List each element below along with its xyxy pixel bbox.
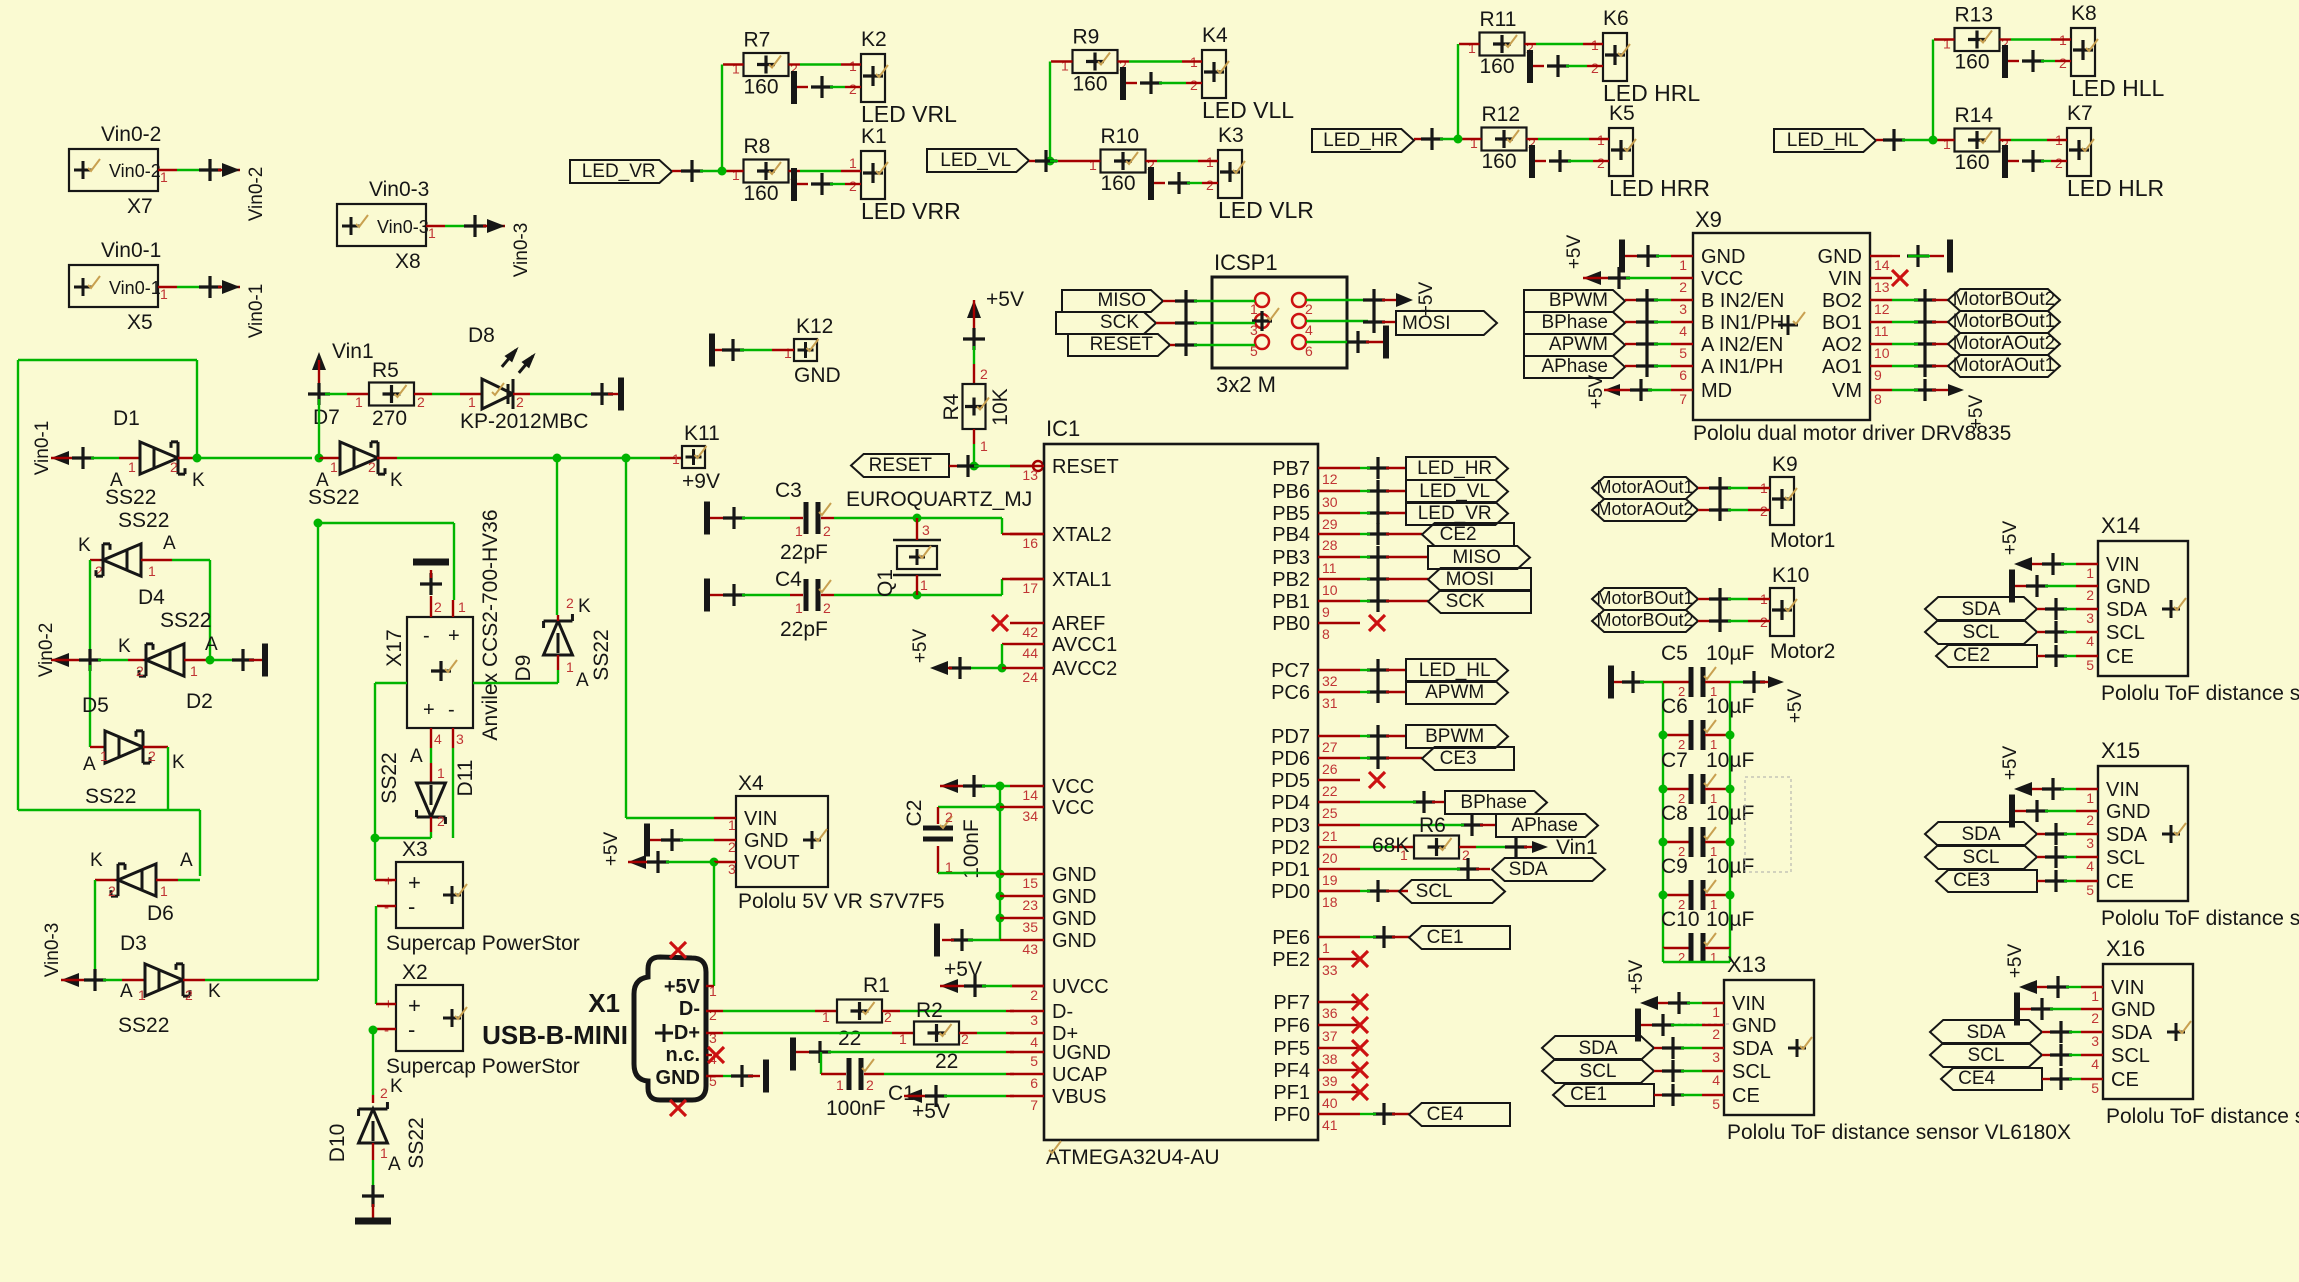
svg-text:11: 11	[1874, 323, 1889, 339]
svg-text:38: 38	[1322, 1051, 1338, 1067]
svg-text:2: 2	[185, 987, 193, 1003]
svg-text:2: 2	[2055, 155, 2063, 171]
svg-text:A: A	[180, 850, 193, 871]
svg-text:31: 31	[1322, 695, 1338, 711]
svg-text:AO1: AO1	[1822, 356, 1862, 378]
svg-text:5: 5	[1679, 345, 1687, 361]
svg-text:PF6: PF6	[1273, 1015, 1310, 1037]
svg-text:GND: GND	[2111, 999, 2155, 1021]
svg-text:C4: C4	[775, 568, 802, 591]
svg-text:2: 2	[945, 809, 953, 825]
svg-text:3: 3	[2091, 1033, 2099, 1049]
svg-text:MotorAOut1: MotorAOut1	[1953, 355, 2055, 376]
svg-text:1: 1	[330, 459, 338, 475]
svg-text:SCL: SCL	[1968, 1045, 2005, 1066]
svg-text:R7: R7	[744, 29, 771, 52]
svg-text:CE3: CE3	[1440, 748, 1477, 769]
svg-text:1: 1	[138, 987, 146, 1003]
svg-text:APWM: APWM	[1425, 682, 1484, 703]
svg-text:PD6: PD6	[1271, 748, 1310, 770]
svg-text:LED_VR: LED_VR	[1418, 503, 1492, 524]
svg-text:SCL: SCL	[1732, 1061, 1771, 1083]
svg-text:CE2: CE2	[1440, 524, 1477, 545]
svg-text:K10: K10	[1772, 564, 1809, 587]
svg-text:5: 5	[1712, 1096, 1720, 1112]
svg-text:LED_HR: LED_HR	[1323, 130, 1398, 151]
svg-text:X7: X7	[127, 195, 153, 218]
svg-text:4: 4	[1030, 1034, 1038, 1050]
svg-text:+: +	[384, 873, 393, 890]
svg-text:EUROQUARTZ_MJ: EUROQUARTZ_MJ	[846, 488, 1032, 511]
svg-text:K6: K6	[1603, 7, 1629, 30]
svg-text:PB6: PB6	[1272, 481, 1310, 503]
svg-text:22: 22	[838, 1027, 861, 1050]
svg-text:RESET: RESET	[869, 455, 933, 476]
svg-text:GND: GND	[2106, 576, 2150, 598]
svg-text:CE4: CE4	[1427, 1104, 1464, 1125]
svg-text:A: A	[120, 981, 133, 1002]
svg-text:Vin0-1: Vin0-1	[101, 239, 161, 262]
svg-text:2: 2	[170, 459, 178, 475]
svg-text:SCL: SCL	[2106, 847, 2145, 869]
svg-text:Vin1: Vin1	[332, 340, 374, 363]
svg-text:BPWM: BPWM	[1549, 290, 1608, 311]
svg-text:5: 5	[1030, 1053, 1038, 1069]
svg-text:+5V: +5V	[986, 288, 1024, 311]
svg-text:3: 3	[2086, 835, 2094, 851]
svg-text:A IN2/EN: A IN2/EN	[1701, 334, 1783, 356]
svg-text:+5V: +5V	[2005, 944, 2026, 979]
svg-text:12: 12	[1322, 471, 1338, 487]
svg-text:CE4: CE4	[1958, 1068, 1995, 1089]
svg-text:10: 10	[1322, 582, 1338, 598]
svg-text:PD3: PD3	[1271, 815, 1310, 837]
svg-text:VCC: VCC	[1052, 776, 1094, 798]
svg-text:CE: CE	[2111, 1069, 2139, 1091]
svg-text:PC7: PC7	[1271, 660, 1310, 682]
svg-text:Pololu ToF distance s: Pololu ToF distance s	[2106, 1105, 2299, 1128]
svg-text:16: 16	[1022, 535, 1038, 551]
svg-text:LED VRR: LED VRR	[861, 198, 961, 224]
svg-text:K3: K3	[1218, 124, 1244, 147]
svg-text:30: 30	[1322, 494, 1338, 510]
svg-text:BO2: BO2	[1822, 290, 1862, 312]
svg-text:Vin0-1: Vin0-1	[32, 421, 53, 476]
svg-text:APhase: APhase	[1511, 815, 1578, 836]
svg-text:10µF: 10µF	[1706, 802, 1754, 825]
svg-text:K: K	[118, 636, 131, 657]
svg-text:Supercap PowerStor: Supercap PowerStor	[386, 1055, 580, 1078]
svg-text:1: 1	[2086, 565, 2094, 581]
svg-text:2: 2	[1190, 77, 1198, 93]
svg-text:SS22: SS22	[118, 509, 169, 532]
svg-text:10µF: 10µF	[1706, 855, 1754, 878]
svg-text:4: 4	[2086, 633, 2094, 649]
svg-text:4: 4	[1305, 322, 1313, 338]
svg-text:+5V: +5V	[2000, 521, 2021, 556]
svg-text:PF1: PF1	[1273, 1082, 1310, 1104]
svg-text:40: 40	[1322, 1095, 1338, 1111]
svg-text:15: 15	[1022, 875, 1038, 891]
svg-text:MotorBOut2: MotorBOut2	[1596, 610, 1693, 630]
svg-text:X16: X16	[2106, 936, 2145, 961]
svg-text:CE3: CE3	[1953, 870, 1990, 891]
svg-text:SS22: SS22	[590, 629, 613, 680]
svg-text:5: 5	[2086, 882, 2094, 898]
svg-text:1: 1	[1061, 58, 1069, 74]
svg-text:4: 4	[2091, 1056, 2099, 1072]
svg-text:GND: GND	[744, 830, 788, 852]
svg-text:2: 2	[380, 1085, 388, 1101]
svg-text:Pololu ToF distance sensor VL6: Pololu ToF distance sensor VL6180X	[1727, 1121, 2071, 1144]
svg-text:CE1: CE1	[1570, 1084, 1607, 1105]
svg-text:D8: D8	[468, 324, 495, 347]
svg-text:43: 43	[1022, 941, 1038, 957]
svg-text:2: 2	[566, 595, 574, 611]
svg-text:2: 2	[823, 600, 831, 616]
svg-text:SDA: SDA	[1966, 1022, 2005, 1043]
svg-text:2: 2	[866, 1077, 874, 1093]
svg-text:GND: GND	[794, 364, 841, 387]
svg-text:3: 3	[1679, 301, 1687, 317]
svg-text:+5V: +5V	[601, 832, 622, 867]
svg-text:+5V: +5V	[912, 1100, 950, 1123]
svg-text:42: 42	[1022, 624, 1038, 640]
svg-text:PF5: PF5	[1273, 1038, 1310, 1060]
svg-text:A: A	[205, 634, 218, 655]
svg-text:C5: C5	[1661, 642, 1688, 665]
svg-text:LED_VL: LED_VL	[1419, 481, 1490, 502]
svg-text:8: 8	[1322, 626, 1330, 642]
svg-text:+5V: +5V	[1564, 235, 1585, 270]
svg-text:SS22: SS22	[405, 1117, 428, 1168]
svg-text:C10: C10	[1661, 908, 1700, 931]
svg-text:SDA: SDA	[2106, 599, 2148, 621]
svg-text:SDA: SDA	[2111, 1022, 2153, 1044]
svg-text:2: 2	[2059, 55, 2067, 71]
svg-text:VIN: VIN	[1732, 993, 1765, 1015]
svg-text:1: 1	[1322, 940, 1330, 956]
svg-text:PD4: PD4	[1271, 792, 1310, 814]
svg-text:SDA: SDA	[1732, 1038, 1774, 1060]
svg-text:1: 1	[148, 563, 156, 579]
svg-text:X2: X2	[402, 961, 428, 984]
svg-text:23: 23	[1022, 897, 1038, 913]
svg-text:MotorBOut1: MotorBOut1	[1953, 311, 2055, 332]
svg-text:KP-2012MBC: KP-2012MBC	[460, 410, 588, 433]
svg-text:37: 37	[1322, 1028, 1338, 1044]
svg-text:SDA: SDA	[1509, 859, 1548, 880]
svg-text:PC6: PC6	[1271, 682, 1310, 704]
svg-text:33: 33	[1322, 962, 1338, 978]
svg-text:USB-B-MINI: USB-B-MINI	[482, 1020, 628, 1050]
svg-text:3: 3	[728, 861, 736, 877]
svg-text:34: 34	[1022, 808, 1038, 824]
svg-text:Vin0-1: Vin0-1	[109, 278, 161, 298]
svg-text:2: 2	[1712, 1026, 1720, 1042]
svg-text:2: 2	[2086, 812, 2094, 828]
svg-text:6: 6	[1679, 367, 1687, 383]
svg-text:MOSI: MOSI	[1446, 569, 1495, 590]
svg-text:GND: GND	[1052, 886, 1096, 908]
svg-text:GND: GND	[1052, 908, 1096, 930]
svg-text:1: 1	[190, 663, 198, 679]
svg-text:+5V: +5V	[1586, 375, 1607, 410]
svg-text:X4: X4	[738, 772, 764, 795]
svg-text:CE2: CE2	[1953, 645, 1990, 666]
svg-text:K: K	[172, 752, 185, 773]
svg-text:R13: R13	[1955, 4, 1994, 27]
svg-text:CE: CE	[2106, 646, 2134, 668]
svg-text:VM: VM	[1832, 380, 1862, 402]
svg-text:3: 3	[2086, 610, 2094, 626]
svg-text:VIN: VIN	[2106, 554, 2139, 576]
svg-text:17: 17	[1022, 580, 1038, 596]
svg-text:Pololu 5V VR S7V7F5: Pololu 5V VR S7V7F5	[738, 890, 945, 913]
svg-text:+9V: +9V	[682, 470, 720, 493]
svg-text:ATMEGA32U4-AU: ATMEGA32U4-AU	[1046, 1146, 1220, 1169]
svg-text:GND: GND	[656, 1067, 700, 1089]
svg-text:LED VRL: LED VRL	[861, 101, 957, 127]
svg-text:UVCC: UVCC	[1052, 976, 1109, 998]
svg-text:AO2: AO2	[1822, 334, 1862, 356]
svg-text:29: 29	[1322, 516, 1338, 532]
svg-text:R2: R2	[916, 999, 943, 1022]
svg-text:2: 2	[849, 178, 857, 194]
svg-text:160: 160	[1955, 151, 1990, 174]
svg-text:41: 41	[1322, 1117, 1338, 1133]
svg-text:R4: R4	[940, 393, 963, 420]
svg-text:X9: X9	[1695, 207, 1722, 232]
svg-text:GND: GND	[2106, 801, 2150, 823]
svg-text:5: 5	[2086, 657, 2094, 673]
svg-text:28: 28	[1322, 537, 1338, 553]
svg-text:D-: D-	[1052, 1001, 1073, 1023]
svg-text:Vin0-1: Vin0-1	[246, 284, 267, 339]
svg-text:PB4: PB4	[1272, 524, 1310, 546]
svg-text:AVCC2: AVCC2	[1052, 658, 1117, 680]
svg-text:SCL: SCL	[1416, 881, 1453, 902]
svg-text:1: 1	[468, 394, 476, 410]
svg-text:MotorAOut2: MotorAOut2	[1953, 333, 2055, 354]
svg-text:MOSI: MOSI	[1402, 313, 1451, 334]
svg-text:1: 1	[160, 883, 168, 899]
svg-text:1: 1	[795, 523, 803, 539]
svg-text:D9: D9	[512, 655, 535, 682]
svg-text:1: 1	[1943, 136, 1951, 152]
svg-text:K: K	[390, 470, 403, 491]
svg-text:SS22: SS22	[118, 1014, 169, 1037]
svg-text:D+: D+	[674, 1022, 700, 1044]
svg-text:D5: D5	[82, 694, 109, 717]
svg-text:Vin1: Vin1	[1556, 836, 1598, 859]
svg-text:10K: 10K	[989, 388, 1012, 425]
svg-text:D4: D4	[138, 586, 165, 609]
svg-text:D11: D11	[454, 760, 477, 797]
svg-text:1: 1	[355, 394, 363, 410]
svg-text:21: 21	[1322, 828, 1338, 844]
svg-text:RESET: RESET	[1090, 334, 1154, 355]
svg-text:Q1: Q1	[874, 569, 897, 597]
svg-text:AREF: AREF	[1052, 613, 1105, 635]
svg-text:+: +	[448, 625, 460, 647]
svg-text:BPhase: BPhase	[1460, 792, 1527, 813]
svg-text:LED VLL: LED VLL	[1202, 97, 1294, 123]
svg-text:160: 160	[1955, 51, 1990, 74]
svg-text:LED_HL: LED_HL	[1419, 660, 1491, 681]
svg-text:1: 1	[1679, 257, 1687, 273]
svg-text:10µF: 10µF	[1706, 642, 1754, 665]
svg-text:-: -	[408, 1017, 415, 1042]
svg-text:22pF: 22pF	[780, 541, 828, 564]
svg-text:SDA: SDA	[2106, 824, 2148, 846]
svg-text:-: -	[384, 899, 389, 916]
svg-text:+5V: +5V	[910, 629, 931, 664]
svg-text:D2: D2	[186, 690, 213, 713]
svg-text:160: 160	[1480, 55, 1515, 78]
svg-text:BO1: BO1	[1822, 312, 1862, 334]
svg-text:PF7: PF7	[1273, 992, 1310, 1014]
svg-text:SCL: SCL	[1580, 1061, 1617, 1082]
svg-text:XTAL2: XTAL2	[1052, 524, 1112, 546]
svg-text:R1: R1	[863, 974, 890, 997]
svg-text:LED_VL: LED_VL	[940, 150, 1011, 171]
svg-text:SCL: SCL	[2106, 622, 2145, 644]
svg-text:1: 1	[2091, 988, 2099, 1004]
svg-text:PD7: PD7	[1271, 726, 1310, 748]
svg-text:LED HLL: LED HLL	[2071, 75, 2165, 101]
svg-text:BPWM: BPWM	[1425, 726, 1484, 747]
svg-text:LED HRR: LED HRR	[1609, 175, 1710, 201]
svg-text:C2: C2	[903, 800, 926, 827]
svg-text:C3: C3	[775, 479, 802, 502]
svg-text:1: 1	[458, 599, 466, 615]
svg-text:MD: MD	[1701, 380, 1732, 402]
svg-text:35: 35	[1022, 919, 1038, 935]
svg-text:1: 1	[728, 817, 736, 833]
svg-text:PF4: PF4	[1273, 1060, 1310, 1082]
svg-text:22pF: 22pF	[780, 618, 828, 641]
svg-text:1: 1	[1470, 135, 1478, 151]
svg-text:n.c.: n.c.	[666, 1044, 700, 1066]
svg-text:1: 1	[836, 1077, 844, 1093]
svg-text:Motor1: Motor1	[1770, 529, 1835, 552]
svg-text:10: 10	[1874, 345, 1890, 361]
svg-text:+: +	[408, 993, 421, 1018]
svg-text:D7: D7	[313, 406, 340, 429]
svg-text:B IN2/EN: B IN2/EN	[1701, 290, 1784, 312]
svg-text:+5V: +5V	[664, 976, 701, 998]
svg-text:22: 22	[935, 1050, 958, 1073]
svg-text:2: 2	[1305, 301, 1313, 317]
svg-text:26: 26	[1322, 761, 1338, 777]
svg-text:Vin0-3: Vin0-3	[369, 178, 429, 201]
svg-text:SDA: SDA	[1961, 824, 2000, 845]
svg-text:14: 14	[1022, 787, 1038, 803]
svg-text:XTAL1: XTAL1	[1052, 569, 1112, 591]
svg-text:ICSP1: ICSP1	[1214, 250, 1278, 275]
svg-text:1: 1	[822, 1009, 830, 1025]
svg-text:1: 1	[920, 577, 928, 593]
svg-text:R9: R9	[1073, 26, 1100, 49]
svg-text:1: 1	[1250, 301, 1258, 317]
svg-text:2: 2	[434, 599, 442, 615]
svg-text:1: 1	[160, 169, 168, 185]
svg-text:RESET: RESET	[1052, 456, 1119, 478]
svg-text:27: 27	[1322, 739, 1338, 755]
svg-text:1: 1	[380, 1145, 388, 1161]
svg-text:2: 2	[1030, 987, 1038, 1003]
svg-text:-: -	[423, 625, 430, 647]
svg-text:Vin0-3: Vin0-3	[42, 923, 63, 978]
svg-text:GND: GND	[1818, 246, 1862, 268]
svg-text:1: 1	[1400, 847, 1408, 863]
svg-text:2: 2	[980, 366, 988, 382]
svg-text:UGND: UGND	[1052, 1042, 1111, 1064]
svg-text:2: 2	[1597, 155, 1605, 171]
svg-text:SCK: SCK	[1446, 591, 1485, 612]
svg-text:R6: R6	[1419, 814, 1446, 837]
svg-text:SCL: SCL	[2111, 1045, 2150, 1067]
svg-text:100nF: 100nF	[960, 819, 983, 879]
svg-text:1: 1	[428, 225, 436, 241]
svg-text:CE: CE	[2106, 871, 2134, 893]
svg-text:X1: X1	[588, 988, 620, 1018]
svg-text:SS22: SS22	[85, 785, 136, 808]
svg-text:K5: K5	[1609, 102, 1635, 125]
svg-text:K: K	[390, 1076, 403, 1097]
svg-text:MotorBOut1: MotorBOut1	[1596, 588, 1693, 608]
svg-text:LED_HL: LED_HL	[1787, 130, 1859, 151]
svg-text:K: K	[90, 850, 103, 871]
svg-text:LED_HR: LED_HR	[1417, 458, 1492, 479]
svg-text:SDA: SDA	[1961, 599, 2000, 620]
svg-text:VCC: VCC	[1701, 268, 1743, 290]
svg-text:4: 4	[2086, 858, 2094, 874]
svg-text:MotorAOut1: MotorAOut1	[1596, 477, 1693, 497]
svg-text:SDA: SDA	[1578, 1038, 1617, 1059]
svg-text:LED VLR: LED VLR	[1218, 197, 1314, 223]
svg-text:100nF: 100nF	[826, 1097, 886, 1120]
svg-text:C7: C7	[1661, 749, 1688, 772]
svg-text:A IN1/PH: A IN1/PH	[1701, 356, 1783, 378]
svg-text:X15: X15	[2101, 738, 2140, 763]
svg-text:A: A	[388, 1154, 401, 1175]
svg-text:13: 13	[1874, 279, 1890, 295]
svg-text:PE6: PE6	[1272, 927, 1310, 949]
svg-text:12: 12	[1874, 301, 1890, 317]
svg-text:A: A	[576, 670, 589, 691]
svg-text:VIN: VIN	[1829, 268, 1862, 290]
svg-text:A: A	[163, 533, 176, 554]
svg-text:GND: GND	[1052, 864, 1096, 886]
svg-text:18: 18	[1322, 894, 1338, 910]
svg-text:SS22: SS22	[378, 752, 401, 803]
svg-text:+5V: +5V	[2000, 746, 2021, 781]
svg-text:K: K	[578, 596, 591, 617]
svg-text:1: 1	[784, 345, 792, 361]
svg-text:24: 24	[1022, 669, 1038, 685]
svg-text:CE: CE	[1732, 1085, 1760, 1107]
svg-text:Vin0-2: Vin0-2	[246, 167, 267, 222]
svg-text:1: 1	[128, 459, 136, 475]
svg-text:VIN: VIN	[2106, 779, 2139, 801]
svg-text:36: 36	[1322, 1005, 1338, 1021]
svg-text:160: 160	[1073, 73, 1108, 96]
svg-text:VIN: VIN	[2111, 977, 2144, 999]
svg-text:C9: C9	[1661, 855, 1688, 878]
svg-text:1: 1	[1712, 1004, 1720, 1020]
